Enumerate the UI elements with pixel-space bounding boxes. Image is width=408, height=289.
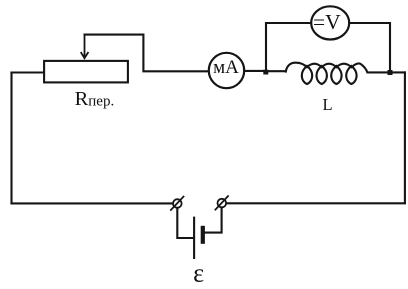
ammeter U1 (мА) bbox=[209, 53, 244, 88]
inductor L1 coil bbox=[286, 63, 368, 73]
node A junction dot bbox=[263, 70, 268, 75]
svg-text:Rпер.: Rпер. bbox=[75, 88, 115, 110]
wire node A to inductor bbox=[266, 70, 286, 72]
switch terminal right (circle with slash) bbox=[215, 196, 228, 209]
wire right vertical side bbox=[404, 72, 406, 203]
wire bottom right bbox=[226, 202, 405, 204]
node B junction dot bbox=[388, 70, 393, 75]
rheostat wiper arrow bbox=[81, 35, 88, 59]
inductor L1 loop 4 bbox=[346, 66, 356, 84]
wire battery right lead bbox=[205, 207, 222, 232]
wire voltmeter branch right bbox=[349, 23, 390, 70]
inductor L1 loop 1 bbox=[302, 66, 312, 84]
wire bottom left bbox=[12, 202, 174, 204]
svg-text:ε: ε bbox=[193, 258, 204, 287]
wire inductor to right edge bbox=[368, 71, 405, 73]
svg-text:L: L bbox=[323, 95, 333, 114]
wire ammeter to node A bbox=[244, 70, 263, 72]
battery positive plate (long) bbox=[193, 217, 195, 259]
wire top-left to rheostat bbox=[12, 71, 46, 73]
battery negative plate (short thick) bbox=[201, 226, 205, 244]
inductor L1 loop 2 bbox=[317, 66, 327, 84]
svg-text:мА: мА bbox=[213, 57, 239, 78]
wire battery left lead bbox=[177, 208, 193, 238]
wire left vertical side bbox=[10, 73, 12, 204]
resistor R1 body (rheostat R_пер.) bbox=[44, 61, 128, 83]
svg-text:=V: =V bbox=[313, 10, 341, 34]
inductor L1 loop 3 bbox=[331, 66, 341, 84]
switch terminal left (circle with slash) bbox=[171, 197, 184, 210]
wire wiper to ammeter bbox=[85, 35, 209, 72]
wire voltmeter branch left bbox=[266, 23, 311, 69]
voltmeter U2 (=V) bbox=[311, 6, 349, 39]
